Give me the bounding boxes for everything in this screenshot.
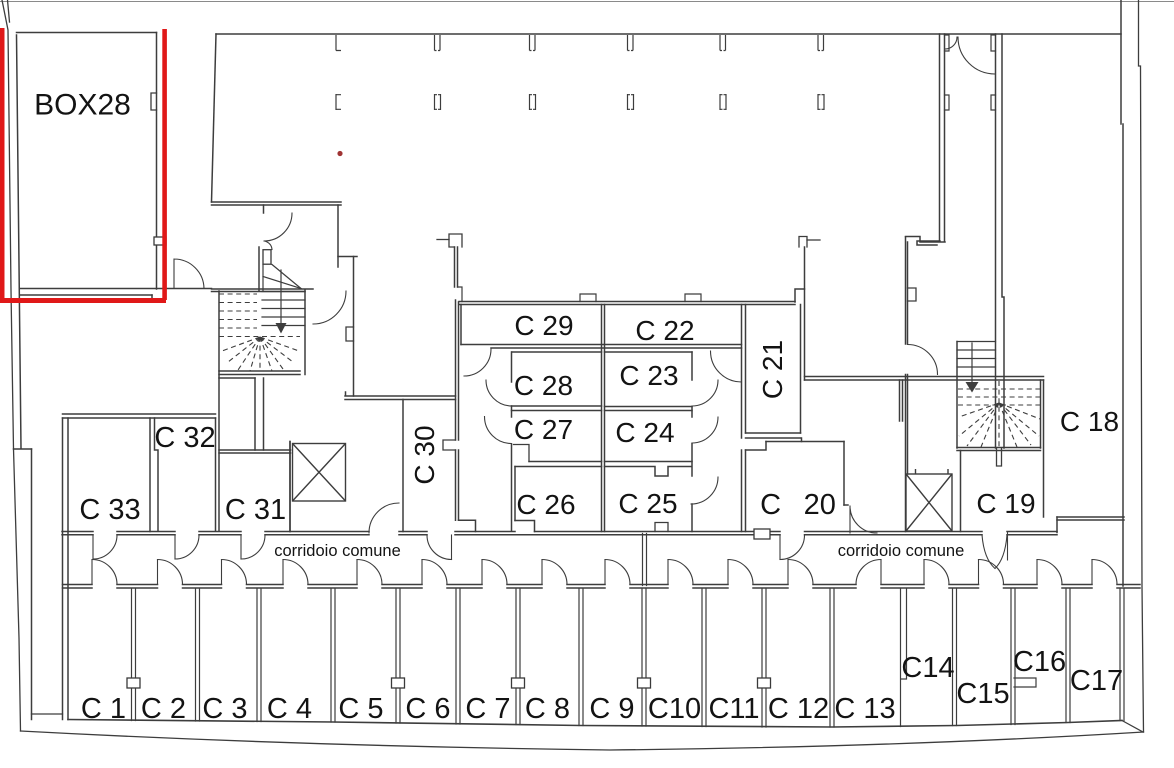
narrow room east wall inner xyxy=(995,34,997,448)
hanging wall cap box xyxy=(449,234,462,247)
C23 C24 C25 east wall xyxy=(691,352,693,532)
corridor door arc right of C20 xyxy=(850,506,877,533)
C30 north wall double xyxy=(345,392,456,400)
C31 door leaf xyxy=(240,535,242,559)
stair-left tread 2 xyxy=(262,299,305,301)
C20 east wall xyxy=(843,442,845,506)
hanging wall tick xyxy=(437,239,449,241)
stair lobby lower door arc xyxy=(313,291,346,324)
red outline east side xyxy=(162,29,167,300)
stair lobby west wall upper xyxy=(906,237,908,344)
cell door leaves xyxy=(92,560,1092,585)
C30 west wall xyxy=(402,400,404,532)
lobby east wall notch xyxy=(346,327,354,341)
svg-text:C 23: C 23 xyxy=(619,360,678,391)
step up to hall SE xyxy=(795,289,805,302)
cells south wall xyxy=(68,720,1122,728)
corridor north wall upper line xyxy=(62,531,1057,533)
svg-text:C 25: C 25 xyxy=(618,488,677,519)
door jamb above stair xyxy=(263,205,265,213)
elevator lobby door arc xyxy=(369,503,399,533)
C29 C22 north wall double xyxy=(459,302,795,305)
stair-left dashed tread xyxy=(219,310,257,312)
wall x338 segment xyxy=(337,205,339,267)
svg-text:C 4: C 4 xyxy=(267,693,312,725)
stair-left west wall xyxy=(218,291,220,531)
svg-text:C 31: C 31 xyxy=(225,494,286,526)
center column wall double xyxy=(602,305,605,532)
C21 east wall inner xyxy=(800,305,802,434)
stair lobby west wall lower xyxy=(906,375,908,532)
svg-text:C 1: C 1 xyxy=(81,693,126,725)
outer boundary east outer xyxy=(1139,0,1144,732)
C29 west wall xyxy=(460,305,462,345)
west wall step xyxy=(14,448,32,450)
wall y289 west of stair xyxy=(212,289,314,292)
lobby east wall x353 xyxy=(353,257,355,397)
cell divider walls xyxy=(132,589,1071,728)
stair-right dashed center xyxy=(998,381,1000,447)
C32 west wall xyxy=(155,418,159,531)
C27 south wall xyxy=(529,461,602,463)
svg-text:C 26: C 26 xyxy=(516,489,575,520)
C28 north wall xyxy=(512,351,602,353)
C16 stub wall xyxy=(1014,678,1036,687)
C19 north wall double xyxy=(957,448,1041,451)
north wall pilaster 2 xyxy=(685,294,701,302)
svg-text:C 5: C 5 xyxy=(338,693,383,725)
stair-left flight diagonal 2 xyxy=(263,277,301,289)
svg-text:C17: C17 xyxy=(1070,665,1123,697)
C26 west inner wall xyxy=(514,467,516,521)
BOX28 north wall xyxy=(17,32,157,34)
stair-right dashed tread xyxy=(958,396,1040,398)
C24 north wall xyxy=(605,410,693,412)
C32 east wall xyxy=(215,418,217,531)
svg-text:C10: C10 xyxy=(648,693,701,725)
svg-text:C15: C15 xyxy=(956,678,1009,710)
C32 door arc xyxy=(175,535,199,559)
stair-right dashed tread xyxy=(958,388,1040,390)
hanging wall double xyxy=(455,247,458,287)
corridor south wall upper line xyxy=(63,584,1141,586)
C20 north wall east part xyxy=(766,441,844,443)
C25 north wall with notch xyxy=(605,467,692,477)
narrow room east wall outer xyxy=(1002,34,1004,448)
top border line xyxy=(0,1,1174,3)
svg-text:C14: C14 xyxy=(901,652,954,684)
C28 door arc xyxy=(486,380,512,406)
svg-text:C 24: C 24 xyxy=(615,417,674,448)
C20 east door wall stub xyxy=(844,504,848,506)
pillar row2 xyxy=(530,94,536,110)
outer boundary bottom curve xyxy=(21,731,1144,750)
divider box C11C12 xyxy=(758,678,771,688)
pillar row2 xyxy=(628,94,634,110)
C23 door arc xyxy=(692,380,718,406)
C23 north wall xyxy=(605,351,693,353)
C30 door arc xyxy=(427,535,452,560)
stair-right east boundary double xyxy=(1041,380,1044,517)
C21 east wall outer xyxy=(804,247,806,380)
svg-text:C 18: C 18 xyxy=(1060,406,1119,437)
narrow room door arc big xyxy=(958,37,995,74)
stair-left tread 4 xyxy=(262,316,305,318)
svg-text:corridoio comune: corridoio comune xyxy=(274,542,401,560)
C13 C14 divider step xyxy=(901,589,907,727)
BOX28 east wall notch xyxy=(151,93,157,110)
room under stair top edge xyxy=(219,377,255,379)
west cell wall inner xyxy=(67,418,69,720)
svg-text:C 33: C 33 xyxy=(79,494,140,526)
stair-left down arrow xyxy=(276,323,287,334)
wall y256 segment xyxy=(338,256,357,258)
C31 east wall xyxy=(289,442,291,532)
pillar row1 xyxy=(435,35,441,51)
pillar row1 xyxy=(628,35,634,51)
corridor south wall lower line xyxy=(63,587,1141,589)
stair-left east wall xyxy=(304,290,306,375)
svg-text:C16: C16 xyxy=(1013,646,1066,678)
elevator cabin left xyxy=(293,444,346,502)
room under stair east wall xyxy=(254,378,256,450)
C19 north stub xyxy=(997,448,1002,466)
C33 door leaf xyxy=(92,535,94,559)
outer boundary west xyxy=(2,0,21,731)
north wall pilaster 1 xyxy=(580,294,596,302)
stair lobby wall notch xyxy=(908,288,917,301)
C27 door arc xyxy=(485,417,512,444)
svg-text:C 6: C 6 xyxy=(405,693,450,725)
red outline south side xyxy=(0,298,166,303)
stair-right tread 1 xyxy=(957,341,996,343)
corridor column bottom step xyxy=(459,520,476,531)
C25 door arc xyxy=(691,477,718,504)
C24 door arc xyxy=(692,417,718,443)
svg-text:C 27: C 27 xyxy=(514,414,573,445)
stair-left tread 5 xyxy=(262,325,305,327)
C30 east recess xyxy=(443,440,456,450)
stair-left dashed tread xyxy=(219,319,257,321)
stair-right tread 3 xyxy=(957,358,996,360)
C29 C22 south wall lower xyxy=(491,347,742,349)
stair-right west wall xyxy=(956,342,958,449)
stair lobby upper door arc xyxy=(264,213,292,241)
stair-left dashed tread xyxy=(219,302,257,304)
C26 door step xyxy=(515,521,535,532)
stair-left center line xyxy=(280,270,282,324)
BOX28 west wall xyxy=(17,35,22,448)
hall north wall xyxy=(216,33,1121,35)
C21 C20 west wall x745 xyxy=(745,305,747,532)
corridor north wall lower line xyxy=(62,534,1057,536)
pillar row2 a xyxy=(336,94,341,110)
elevator right top stubs xyxy=(916,469,949,474)
narrow room pilaster W2 xyxy=(945,95,950,110)
C19 double door bell xyxy=(982,532,1008,569)
C28 south wall xyxy=(512,405,602,407)
C26 north wall xyxy=(515,466,602,468)
narrow room pilaster NE xyxy=(991,35,996,51)
C33 east wall xyxy=(149,418,151,532)
C29 C22 south wall upper xyxy=(461,344,742,346)
narrow room west wall double xyxy=(940,34,945,241)
door jamb box near stair lobby xyxy=(263,250,271,265)
C29 door arc xyxy=(464,349,491,376)
C20 south door arc xyxy=(780,535,805,560)
hanging wall x900 xyxy=(900,380,903,421)
building east wall inner xyxy=(1121,0,1123,586)
C21 south wall double xyxy=(746,433,801,438)
svg-text:BOX28: BOX28 xyxy=(34,89,131,122)
stair lobby wall below door xyxy=(258,247,260,291)
C31 north wall double xyxy=(219,450,291,453)
pillar row2 xyxy=(818,94,824,110)
stair-right winder rays xyxy=(959,403,1040,447)
stair-left dashed center xyxy=(259,337,261,371)
svg-text:C 19: C 19 xyxy=(976,488,1035,519)
C18 south step xyxy=(1056,517,1058,533)
west cell wall outer xyxy=(62,418,64,720)
stair lobby upper door arc small xyxy=(265,241,273,250)
west wall lower xyxy=(31,449,33,720)
narrow room pilaster NW xyxy=(945,35,950,51)
corridor east wall x741 xyxy=(741,305,743,532)
red survey dot xyxy=(337,151,342,156)
pillar row1 xyxy=(720,35,726,51)
stair lobby door arc xyxy=(908,345,938,375)
cell door arcs xyxy=(92,560,1117,585)
elevator cabin right xyxy=(906,474,952,531)
svg-text:C 29: C 29 xyxy=(514,310,573,341)
svg-text:C 9: C 9 xyxy=(589,693,634,725)
BOX28 side door arc xyxy=(174,259,204,289)
outer boundary top-left inner tick xyxy=(8,0,10,22)
C18 south wall double xyxy=(1057,517,1124,520)
C33 C32 north wall double xyxy=(63,414,216,418)
C19 west wall xyxy=(960,451,962,532)
corridor divider x644 xyxy=(643,534,647,586)
elevator-1 shaft side xyxy=(289,442,291,532)
pillar row1 xyxy=(818,35,824,51)
C32 door leaf xyxy=(174,535,176,559)
stair-left dashed tread full xyxy=(219,336,300,338)
svg-text:C 8: C 8 xyxy=(525,693,570,725)
pillar row2 xyxy=(720,94,726,110)
C21 east wall cap tick xyxy=(807,239,820,241)
red outline west side xyxy=(0,28,5,303)
C17 east wall xyxy=(1120,589,1143,733)
BOX28 east wall xyxy=(156,33,158,290)
pillar row1 xyxy=(530,35,536,51)
stair-left dashed tread xyxy=(219,293,257,295)
stair-right dashed tread xyxy=(958,404,1040,406)
stair-left tread 3 xyxy=(262,308,305,310)
svg-text:C 7: C 7 xyxy=(465,693,510,725)
narrow room door arc small xyxy=(945,37,957,49)
shaft wall x263 xyxy=(263,378,265,450)
BOX28 south wall upper line xyxy=(20,288,212,290)
C31 door arc xyxy=(241,535,265,559)
divider box C5C6 xyxy=(392,678,405,688)
svg-text:C 13: C 13 xyxy=(834,693,895,725)
C27 north wall xyxy=(512,410,602,412)
stair-left west edge line xyxy=(262,265,264,292)
hall west wall xyxy=(212,34,217,202)
C21 east wall cap box xyxy=(799,237,807,248)
stair-right tread 2 xyxy=(957,349,996,351)
C28 C27 C26 west wall xyxy=(511,352,513,531)
svg-text:C 20: C 20 xyxy=(760,489,836,521)
C20 south door leaf xyxy=(779,535,781,560)
C33 door arc xyxy=(93,535,117,559)
hall south wall west part xyxy=(212,202,342,205)
pillar row1 a xyxy=(336,35,341,51)
stair-right down arrow xyxy=(966,382,979,393)
svg-text:C 32: C 32 xyxy=(154,422,215,454)
narrow room west cap xyxy=(917,241,940,245)
BOX28 south wall step xyxy=(152,295,164,302)
divider box C9C10 xyxy=(638,678,651,688)
divider box C1C2 xyxy=(127,678,140,688)
svg-text:C 2: C 2 xyxy=(141,693,186,725)
C22 door arc xyxy=(711,351,742,382)
stair-left winder rays xyxy=(222,337,299,371)
BOX28 south wall lower line xyxy=(20,294,152,296)
svg-text:C 21: C 21 xyxy=(757,340,788,399)
C25 south notch xyxy=(655,523,668,532)
west small cell bottom xyxy=(32,713,63,715)
divider box C7C8 xyxy=(512,678,525,688)
svg-text:C 28: C 28 xyxy=(514,370,573,401)
svg-text:C 12: C 12 xyxy=(768,693,829,725)
stair-right tread 4 xyxy=(957,366,996,368)
C21 south connector xyxy=(801,438,803,442)
svg-text:corridoio comune: corridoio comune xyxy=(838,542,965,560)
C20 threshold box xyxy=(754,529,770,539)
C30 door leaf xyxy=(451,535,453,560)
hanging wall foot tick xyxy=(458,287,463,302)
svg-text:C11: C11 xyxy=(708,693,759,725)
stair-left dashed tread xyxy=(219,327,257,329)
corridor west wall x455 double xyxy=(456,300,459,520)
stair-left flight diagonal 1 xyxy=(272,265,301,289)
south hall wall double y376 xyxy=(805,377,1044,381)
stair-right arrow stem xyxy=(971,343,973,383)
narrow room pilaster E2 xyxy=(991,95,996,110)
stair lobby wall top hook xyxy=(906,237,946,243)
C24 south wall xyxy=(605,461,693,463)
junction box on red line xyxy=(154,237,166,245)
stair-left tread 1 xyxy=(262,291,305,293)
pillar row2 xyxy=(435,94,441,110)
C23 south wall xyxy=(605,406,693,408)
svg-text:C 22: C 22 xyxy=(635,315,694,346)
C20 north step xyxy=(746,442,767,451)
stair-left bottom wall double xyxy=(219,371,300,375)
svg-text:C 3: C 3 xyxy=(202,693,247,725)
svg-text:C 30: C 30 xyxy=(409,425,440,484)
C27 door step xyxy=(514,445,530,462)
